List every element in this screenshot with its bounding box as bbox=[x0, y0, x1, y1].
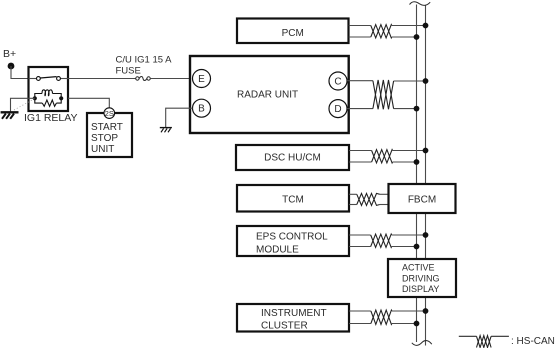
relay resistor bbox=[42, 100, 56, 106]
relay K1 box IG1 RELAY bbox=[29, 67, 69, 111]
junction dot radar D bbox=[414, 106, 420, 112]
ground G2 bbox=[160, 127, 172, 129]
HS-CAN bus line left bbox=[416, 5, 418, 343]
wire IC bottom to bus bbox=[349, 323, 371, 325]
svg-text:MODULE: MODULE bbox=[256, 245, 299, 256]
pin 2S bbox=[104, 108, 115, 119]
svg-text:STOP: STOP bbox=[91, 133, 118, 144]
wire fuse to radar E bbox=[150, 78, 192, 80]
svg-text:DSC HU/CM: DSC HU/CM bbox=[264, 152, 321, 163]
svg-text:TCM: TCM bbox=[282, 195, 304, 206]
svg-text:E: E bbox=[198, 74, 205, 85]
svg-text:C/U IG1 15 A: C/U IG1 15 A bbox=[116, 55, 173, 66]
junction dot IC top bbox=[423, 308, 429, 314]
svg-text:CLUSTER: CLUSTER bbox=[261, 321, 308, 332]
HS-CAN bus line right bbox=[425, 5, 427, 346]
radar unit box bbox=[190, 56, 349, 133]
junction dot PCM top bbox=[423, 23, 429, 29]
wire IC top to bus bbox=[349, 310, 371, 312]
ground G1 bbox=[1, 111, 19, 113]
twisted pair EPS bbox=[371, 234, 392, 247]
svg-text:2S: 2S bbox=[105, 109, 114, 118]
junction dot EPS bottom bbox=[414, 244, 420, 250]
svg-text:D: D bbox=[334, 104, 341, 115]
wire TCM bottom to FBCM bbox=[349, 204, 357, 206]
svg-text:FUSE: FUSE bbox=[116, 66, 141, 77]
start stop unit box bbox=[87, 113, 132, 157]
PCM box bbox=[237, 19, 349, 44]
wire DSC top to bus bbox=[349, 150, 372, 152]
svg-text:B: B bbox=[198, 104, 205, 115]
pin E bbox=[193, 70, 211, 88]
wire switch row inside relay bbox=[29, 78, 37, 80]
instrument cluster box bbox=[237, 304, 349, 332]
pin D bbox=[329, 100, 347, 118]
relay coil branch rails bbox=[35, 94, 61, 104]
svg-text:EPS CONTROL: EPS CONTROL bbox=[256, 232, 328, 243]
twisted pair IC bbox=[371, 310, 392, 324]
svg-text:FBCM: FBCM bbox=[408, 195, 436, 206]
junction dot DSC bottom bbox=[414, 159, 420, 165]
junction dot EPS top bbox=[423, 232, 429, 238]
svg-text:ACTIVE: ACTIVE bbox=[402, 263, 435, 273]
junction dot PCM bottom bbox=[414, 34, 420, 40]
wire EPS top to bus bbox=[349, 234, 371, 236]
junction dot IC bottom bbox=[414, 321, 420, 327]
junction dot DSC top bbox=[423, 148, 429, 154]
relay switch blade bbox=[40, 77, 56, 78]
bus break squiggle top bbox=[410, 2, 431, 6]
svg-text:START: START bbox=[91, 122, 123, 133]
svg-text:DISPLAY: DISPLAY bbox=[402, 284, 439, 294]
active driving display box bbox=[388, 259, 456, 297]
pin B bbox=[193, 99, 211, 117]
svg-text:B+: B+ bbox=[3, 48, 16, 60]
wire EPS bottom to bus bbox=[349, 246, 371, 248]
wire radar C to bus bbox=[347, 80, 373, 82]
dotted case-ground line bbox=[14, 99, 34, 110]
svg-text:DRIVING: DRIVING bbox=[402, 273, 440, 283]
wire B+ to relay bbox=[11, 66, 29, 79]
wire DSC bottom to bus bbox=[349, 161, 372, 163]
EPS control module box bbox=[237, 226, 349, 256]
legend HS-CAN wire bbox=[459, 335, 477, 337]
twisted pair radar bbox=[373, 80, 394, 109]
svg-text:IG1 RELAY: IG1 RELAY bbox=[24, 112, 78, 124]
svg-text:C: C bbox=[334, 77, 341, 88]
junction dot radar C bbox=[423, 78, 429, 84]
relay coil L1 bbox=[42, 90, 53, 96]
pin C bbox=[329, 72, 347, 90]
wire PCM bottom to bus bbox=[349, 36, 371, 38]
relay coil row junction right bbox=[59, 96, 63, 100]
wire radar B to ground bbox=[166, 108, 193, 127]
relay switch contacts bbox=[37, 77, 41, 81]
legend twisted pair bbox=[477, 336, 492, 348]
svg-text:UNIT: UNIT bbox=[91, 144, 114, 155]
bus break squiggle bottom bbox=[412, 341, 432, 346]
svg-text:PCM: PCM bbox=[282, 28, 304, 39]
DSC HU/CM box bbox=[236, 145, 349, 170]
wire radar D to bus bbox=[347, 108, 373, 110]
svg-text:RADAR UNIT: RADAR UNIT bbox=[237, 90, 298, 101]
svg-text:INSTRUMENT: INSTRUMENT bbox=[261, 308, 327, 319]
twisted pair TCM bbox=[357, 193, 380, 205]
FBCM box bbox=[389, 184, 456, 213]
relay coil row junction left bbox=[33, 96, 37, 100]
wire relay to fuse bbox=[68, 78, 136, 80]
TCM box bbox=[237, 185, 349, 212]
svg-text:: HS-CAN: : HS-CAN bbox=[511, 336, 555, 347]
wire TCM top to FBCM bbox=[349, 193, 357, 195]
twisted pair DSC bbox=[372, 150, 393, 163]
twisted pair PCM bbox=[371, 25, 392, 38]
wire relay to start-stop unit bbox=[68, 98, 109, 108]
wire PCM top to bus bbox=[349, 25, 371, 27]
wire relay coil to ground bbox=[29, 97, 35, 99]
